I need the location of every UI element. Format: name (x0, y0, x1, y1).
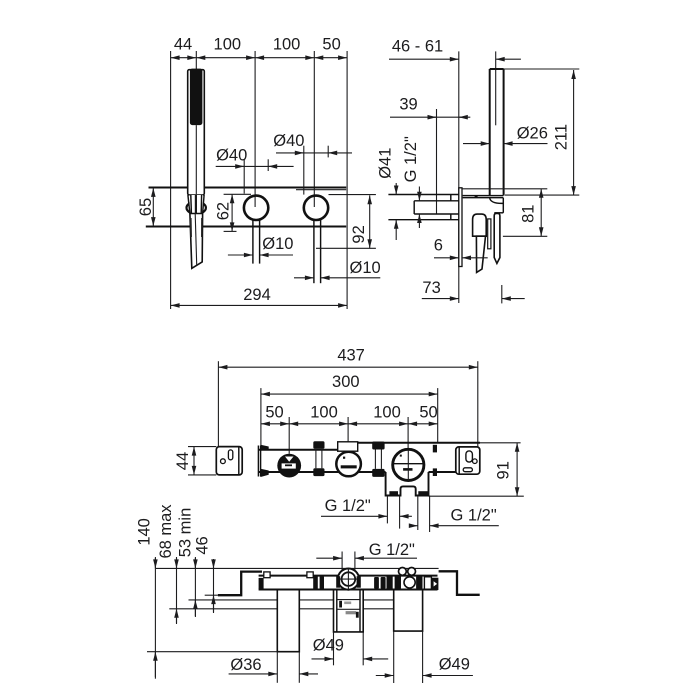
dim 294 (171, 304, 348, 306)
wall bar bottom edge (146, 226, 346, 228)
valve3 (393, 449, 424, 480)
svg-text:Ø10: Ø10 (262, 235, 293, 253)
center line hand shower (195, 51, 197, 69)
furring line (436, 109, 438, 214)
blade dark edge right (201, 218, 203, 237)
neck taper lines (188, 195, 190, 214)
clamp pair 1 (313, 441, 324, 449)
riser pipe right edge (503, 69, 505, 196)
dim O40 knob1 leader (216, 165, 294, 167)
dim 62 (231, 194, 233, 231)
dim 50 (261, 423, 289, 425)
ext 300 left (260, 388, 262, 450)
dim G1/2 thermostat inlet (316, 557, 342, 559)
drop pipe 1 (O36) (277, 590, 299, 652)
svg-text:437: 437 (337, 347, 365, 365)
pipe2 internals (337, 599, 360, 601)
dim 140 (154, 557, 156, 679)
dim 53 min (194, 557, 196, 617)
thermostat inlet ext lines (G1/2) (341, 552, 343, 590)
svg-text:211: 211 (553, 124, 571, 150)
svg-text:91: 91 (495, 461, 513, 479)
clamp pair 2 (372, 442, 384, 450)
dim 92 (369, 195, 371, 248)
svg-text:81: 81 (519, 205, 537, 223)
dim 100 (348, 423, 408, 425)
wand lower blade (476, 236, 485, 272)
thermostat plan circle (338, 569, 359, 590)
ext 437 left (217, 361, 219, 446)
ext valve3 (407, 417, 409, 449)
dim 46 (213, 559, 215, 613)
blade dark edge left (190, 218, 192, 237)
svg-text:Ø49: Ø49 (313, 637, 344, 655)
supply boss outer (388, 194, 458, 196)
svg-text:73: 73 (422, 279, 440, 297)
riser pipe top cap (490, 68, 504, 70)
dim O41 (395, 183, 397, 195)
dim O10 knob1 (228, 254, 253, 256)
svg-text:100: 100 (214, 36, 242, 54)
knob1 outlet pipe (252, 220, 254, 264)
dim O49 mid (312, 658, 334, 660)
svg-text:6: 6 (434, 236, 443, 254)
valve2 plan fittings (387, 575, 393, 589)
svg-text:92: 92 (350, 225, 368, 243)
svg-text:46 - 61: 46 - 61 (392, 38, 443, 56)
dim 81 (540, 189, 542, 237)
right tabs (433, 445, 437, 453)
dim 300 (261, 393, 438, 395)
dark clamp (313, 576, 318, 590)
dim 73 (422, 298, 459, 300)
svg-text:50: 50 (322, 36, 340, 54)
hand shower holder ring (187, 202, 206, 214)
dim 211 (573, 70, 575, 195)
wall bar top edge (149, 187, 347, 189)
wall surface line (458, 51, 460, 303)
svg-text:Ø40: Ø40 (273, 132, 304, 150)
ext line left edge (170, 51, 172, 309)
finished wall line 68max (169, 608, 393, 610)
center line knob1 (254, 51, 256, 207)
dim G1/2 outlet 2 (410, 525, 418, 527)
dim 100 (255, 57, 314, 59)
body top edge left section (259, 449, 338, 451)
neck white cover (190, 195, 203, 214)
center line knob2 (313, 51, 315, 207)
svg-text:50: 50 (419, 403, 437, 421)
body top edge right section (ext to 91) (338, 442, 481, 444)
left bracket arm plan (218, 572, 262, 596)
hand shower handle body (188, 70, 205, 195)
dim O26 (463, 143, 490, 145)
svg-text:G 1/2": G 1/2" (402, 136, 420, 182)
riser pipe inner line (495, 51, 497, 125)
svg-text:39: 39 (399, 96, 417, 114)
ext 437 right (477, 361, 479, 447)
dim O40 knob2 leader (276, 152, 352, 154)
drop pipe 3 (O49) (394, 590, 423, 631)
left end clamp (259, 578, 264, 589)
hand shower dark grip (190, 69, 203, 126)
wand front blade (494, 213, 500, 263)
dim 50 (408, 423, 438, 425)
svg-text:50: 50 (265, 403, 283, 421)
dim 437 (218, 366, 477, 368)
drop pipe 2 (O49) (334, 590, 364, 632)
svg-text:100: 100 (273, 36, 301, 54)
pipe ext lines below (276, 652, 278, 683)
body bar plan (259, 575, 438, 577)
left bracket (216, 447, 242, 475)
holder top plate (463, 195, 504, 197)
right bracket (456, 447, 480, 474)
G1/2 outlet ext lines (386, 496, 388, 524)
svg-text:65: 65 (137, 198, 155, 216)
svg-text:294: 294 (243, 286, 271, 304)
knob2 (304, 196, 328, 220)
O40 knob2 ext lines (303, 146, 305, 195)
dim 100 (196, 57, 255, 59)
dim 68 max (176, 557, 178, 624)
svg-text:62: 62 (214, 202, 232, 220)
dim 65 (152, 188, 154, 226)
ext valve2 (347, 417, 349, 459)
O40 knob1 ext lines (243, 159, 245, 193)
svg-text:Ø40: Ø40 (216, 147, 247, 165)
svg-text:G 1/2": G 1/2" (450, 506, 496, 524)
dim 100 (289, 423, 348, 425)
dim G 1/2 side (418, 187, 420, 201)
neck dark strip (195, 195, 197, 214)
clamp between (374, 577, 379, 589)
dim O49 right (376, 675, 394, 677)
handle center line (195, 125, 197, 195)
finished wall line 53min (189, 599, 394, 601)
dim 50 (314, 57, 347, 59)
dim 44 (171, 57, 197, 59)
wand middle strip (488, 219, 491, 249)
dim G1/2 outlet 1 (321, 515, 387, 517)
holder under-pipe curve (490, 198, 504, 204)
wall cover plate (459, 188, 462, 267)
svg-text:100: 100 (310, 403, 338, 421)
ext to 211 top (504, 68, 580, 70)
dim O10 knob2 (294, 277, 314, 279)
svg-text:53 min: 53 min (176, 508, 194, 558)
ext valve1 (288, 417, 290, 454)
svg-text:Ø41: Ø41 (377, 148, 395, 179)
dim O36 (229, 673, 278, 675)
svg-text:Ø49: Ø49 (439, 655, 470, 673)
knob1 (244, 196, 268, 220)
dim 6 (434, 257, 459, 259)
supply pipe inner (414, 200, 459, 202)
holder right edge (502, 198, 504, 213)
knob2 outlet pipe (313, 220, 315, 284)
svg-text:140: 140 (135, 518, 153, 546)
dim 44 left (193, 447, 195, 475)
boss joint (450, 195, 452, 201)
dim 39 (390, 116, 470, 118)
wand blade (190, 214, 203, 269)
valve1 (277, 454, 301, 478)
svg-text:44: 44 (174, 36, 192, 54)
valve2 plan top circles (399, 568, 407, 576)
blade inner line (195, 214, 197, 265)
nut squares (264, 572, 270, 578)
supply pipe end cap (413, 201, 415, 214)
right bracket arm plan (439, 571, 480, 595)
riser pipe left edge (489, 69, 491, 196)
svg-text:Ø36: Ø36 (230, 656, 261, 674)
svg-text:46: 46 (193, 536, 211, 554)
svg-text:Ø26: Ø26 (517, 125, 548, 143)
wand dome piece (473, 214, 487, 236)
ext line right edge (346, 51, 348, 309)
dim 91 (516, 443, 518, 496)
wall bar inner edge right (296, 189, 346, 191)
svg-text:G 1/2": G 1/2" (325, 497, 371, 515)
outlet bracket (386, 472, 429, 496)
svg-text:300: 300 (332, 373, 360, 391)
outlet pads (389, 491, 398, 495)
svg-text:Ø10: Ø10 (350, 259, 381, 277)
svg-text:68 max: 68 max (157, 504, 175, 559)
body bottom edge (259, 471, 386, 473)
svg-text:G 1/2": G 1/2" (369, 541, 415, 559)
valve2 (336, 452, 361, 477)
reference line (156, 567, 439, 569)
svg-text:100: 100 (373, 403, 401, 421)
valve2 flange tab (338, 442, 358, 451)
140 bottom ext (147, 651, 277, 653)
svg-text:44: 44 (174, 452, 192, 470)
ext 300 right (437, 388, 439, 443)
dim 46-61 (389, 58, 459, 60)
body left end cap (257, 446, 259, 477)
valve2 plan main circle (404, 577, 415, 588)
